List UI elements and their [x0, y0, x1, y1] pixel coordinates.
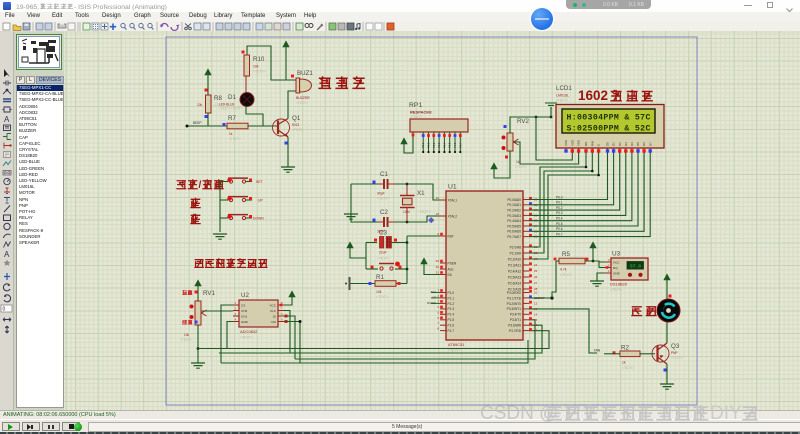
svg-text:<TEXT>: <TEXT> [213, 103, 225, 107]
battery cell [349, 277, 351, 290]
wire D1 to P0.1 [529, 153, 614, 205]
svg-text:<TEXT><TEXT>: <TEXT><TEXT> [219, 107, 243, 111]
svg-text:P0.2: P0.2 [556, 206, 563, 210]
svg-text:<TEXT>: <TEXT> [180, 338, 192, 342]
svg-text:D5: D5 [636, 142, 640, 146]
svg-text:RV2: RV2 [517, 118, 529, 125]
svg-text:P0.3/AD3: P0.3/AD3 [507, 214, 521, 218]
wire D4 to P0.4 [529, 153, 632, 221]
svg-text:P1.0: P1.0 [448, 291, 455, 295]
wire Q1 emitter to ground [287, 137, 289, 167]
svg-text:XTAL1: XTAL1 [448, 198, 458, 202]
svg-text:<TEXT>: <TEXT> [410, 115, 422, 119]
respack pin P0.2 [433, 132, 435, 152]
wire P3.1 stub [529, 297, 552, 299]
svg-text:UP: UP [258, 199, 263, 203]
svg-text:P0.7: P0.7 [556, 232, 563, 236]
svg-text:CH1: CH1 [241, 314, 247, 318]
power arrow RV2 [491, 163, 497, 169]
annotation jia [190, 198, 200, 208]
svg-text:SET: SET [256, 180, 263, 184]
bus wire C [295, 320, 535, 359]
svg-text:12M: 12M [403, 210, 410, 214]
svg-text:D6: D6 [642, 142, 646, 146]
svg-text:<TEXT>: <TEXT> [292, 128, 304, 132]
svg-text:P1.7: P1.7 [448, 329, 455, 333]
device list [16, 85, 64, 408]
svg-text:P1.2: P1.2 [448, 302, 455, 306]
watermark [480, 403, 800, 427]
svg-text:RESPACK8: RESPACK8 [410, 110, 432, 115]
svg-text:RS: RS [584, 142, 588, 146]
svg-text:VSS: VSS [564, 140, 568, 146]
power arrow motor [664, 274, 670, 280]
svg-text:P0.5: P0.5 [556, 222, 563, 226]
svg-text:RST: RST [448, 234, 454, 238]
device list header [16, 76, 64, 84]
wire Q1 collector to buzzer [288, 91, 296, 119]
svg-text:LM016L: LM016L [556, 94, 569, 98]
svg-text:<TEXT>: <TEXT> [448, 349, 461, 353]
svg-text:1k: 1k [229, 132, 233, 136]
annotation fengshan [631, 307, 642, 316]
svg-text:C3: C3 [379, 230, 387, 237]
capacitor C3 electrolytic [366, 242, 377, 244]
svg-text:P2.1/A9: P2.1/A9 [510, 251, 522, 255]
ground C1C2 [344, 214, 358, 219]
svg-text:P3.2/INT0: P3.2/INT0 [507, 302, 522, 306]
svg-text:U3: U3 [612, 251, 621, 258]
svg-text:GND: GND [241, 320, 249, 324]
wire RV2 top to vss [510, 117, 551, 133]
power arrow R8 [205, 69, 211, 75]
svg-text:P0.7: P0.7 [458, 142, 462, 148]
svg-text:<TEXT>: <TEXT> [610, 288, 623, 292]
reset button [366, 268, 378, 270]
svg-text:P0.2: P0.2 [432, 142, 436, 148]
svg-text:R8: R8 [214, 95, 222, 102]
respack RP1 [410, 119, 468, 132]
svg-text:P0.4: P0.4 [442, 142, 446, 148]
power arrow EA [421, 258, 427, 264]
svg-text:RV1: RV1 [203, 290, 215, 297]
wire R7 to Q1 base [248, 125, 278, 127]
led D1 [245, 76, 247, 93]
svg-text:D2: D2 [618, 142, 622, 146]
svg-text:DI: DI [273, 314, 276, 318]
wire FAN net from P3.3 [529, 309, 597, 353]
svg-text:17: 17 [534, 329, 538, 333]
sheet border [166, 37, 697, 405]
wire RV1 bottom [197, 325, 199, 363]
wire D6 to P0.6 [529, 153, 644, 232]
svg-text:DOWN: DOWN [427, 301, 436, 305]
svg-text:P1.5: P1.5 [448, 318, 455, 322]
svg-text:<TEXT>: <TEXT> [377, 257, 390, 261]
svg-text:P3.1/TXD: P3.1/TXD [507, 296, 522, 300]
svg-text:CSDN @: CSDN @ [480, 403, 558, 424]
wire RV1 wiper [202, 310, 234, 312]
svg-text:D7: D7 [648, 142, 652, 146]
svg-text:C2: C2 [380, 209, 388, 216]
svg-text:P0.3: P0.3 [556, 211, 563, 215]
svg-text:D3: D3 [624, 142, 628, 146]
svg-text:DQ: DQ [613, 266, 618, 270]
svg-text:D0: D0 [606, 142, 610, 146]
svg-text:R7: R7 [228, 115, 236, 122]
svg-text:P3.4/T0: P3.4/T0 [510, 313, 521, 317]
toolbar [0, 21, 800, 32]
respack pin P0.0 [422, 132, 424, 152]
svg-text:X1: X1 [417, 190, 425, 197]
svg-text:DO: DO [271, 320, 276, 324]
svg-text:<TEXT>: <TEXT> [622, 366, 635, 370]
svg-text:P0.7/AD7: P0.7/AD7 [507, 235, 521, 239]
svg-text:<TEXT>: <TEXT> [377, 197, 390, 201]
svg-text:<TEXT>: <TEXT> [671, 356, 683, 360]
svg-text:CLK: CLK [270, 309, 277, 313]
net speed pill [566, 0, 651, 9]
svg-text:P0.1: P0.1 [427, 142, 431, 148]
svg-text:10k: 10k [376, 290, 382, 294]
wire R5 left DQ net [556, 260, 559, 262]
svg-text:<TEXT>: <TEXT> [376, 295, 389, 299]
wire motor to Q3 [666, 322, 668, 343]
svg-text:A: A [4, 115, 10, 124]
svg-text:10k: 10k [184, 333, 190, 337]
wire D5 to P0.5 [529, 153, 638, 227]
menu bar [0, 12, 800, 21]
wire U2 DI [284, 316, 295, 359]
wire C1C2 ground rail [351, 183, 379, 185]
svg-text:<TEXT>: <TEXT> [556, 99, 568, 103]
wire D2 to P0.2 [529, 153, 620, 211]
ground Q1 [281, 167, 295, 172]
svg-text:U2: U2 [241, 292, 249, 299]
svg-text:9013: 9013 [292, 123, 299, 127]
wire E net [529, 153, 599, 260]
transistor Q3 PNP [652, 345, 669, 362]
svg-text:- ISIS Professional (Animating: - ISIS Professional (Animating) [74, 4, 167, 11]
svg-text:P0.6: P0.6 [453, 142, 457, 148]
svg-text:D1: D1 [228, 94, 236, 101]
status bar [0, 410, 800, 419]
svg-text:CS: CS [241, 303, 245, 307]
svg-text:P0.6: P0.6 [556, 227, 563, 231]
bottom taskbar edge [0, 432, 800, 434]
respack pin P0.4 [443, 132, 445, 152]
svg-text:P0.0: P0.0 [556, 195, 563, 199]
svg-text:12: 12 [534, 301, 538, 305]
svg-text:/: / [199, 180, 202, 191]
svg-text:P2.2/A10: P2.2/A10 [508, 257, 521, 261]
svg-text:30: 30 [436, 265, 440, 269]
resistor R10 [244, 55, 250, 76]
capacitor C2 [384, 217, 388, 227]
button bus wire [219, 182, 221, 233]
svg-text:16: 16 [534, 323, 538, 327]
respack vcc hook [401, 138, 407, 144]
svg-text:8: 8 [437, 327, 439, 331]
svg-text:P2.0/A8: P2.0/A8 [510, 245, 522, 249]
wire D1 to beep line [246, 107, 263, 127]
svg-text:24: 24 [534, 263, 538, 267]
svg-text:UP: UP [432, 295, 436, 299]
respack pin P0.1 [428, 132, 430, 152]
pot RV2 [507, 133, 513, 151]
svg-text:RP1: RP1 [409, 102, 422, 109]
chip U2 ADC0832 [239, 300, 278, 327]
power arrow U2 vcc [289, 291, 295, 297]
svg-text:BEEP: BEEP [193, 121, 202, 125]
svg-text:P2.4/A12: P2.4/A12 [508, 269, 521, 273]
svg-text:R5: R5 [562, 251, 570, 258]
resistor R5 [559, 258, 585, 264]
resistor R1 [351, 283, 376, 285]
svg-text:P2.6/A14: P2.6/A14 [508, 281, 521, 285]
svg-text:R10: R10 [253, 56, 265, 63]
svg-text:1k: 1k [516, 160, 520, 164]
power arrow RV1 [195, 280, 201, 286]
svg-text:<TEXT>: <TEXT> [296, 101, 308, 105]
svg-text:FAN: FAN [594, 349, 601, 353]
svg-text:7: 7 [437, 321, 439, 325]
wire R5 right [585, 261, 605, 262]
svg-text:VCC: VCC [613, 260, 620, 264]
resistor R2 [604, 353, 620, 355]
svg-text:P0.6/AD6: P0.6/AD6 [507, 230, 521, 234]
svg-text:VDD: VDD [570, 139, 574, 146]
svg-text:P3.3/INT1: P3.3/INT1 [507, 307, 522, 311]
svg-text:6: 6 [437, 316, 439, 320]
svg-text:BUZ1: BUZ1 [297, 70, 313, 77]
svg-text:Q1: Q1 [292, 115, 301, 122]
wire VDD net [536, 117, 572, 160]
svg-text:19: 19 [436, 196, 440, 200]
svg-text:18: 18 [436, 212, 440, 216]
svg-text:P3.0/RXD: P3.0/RXD [507, 291, 522, 295]
svg-text:P0.5/AD5: P0.5/AD5 [507, 224, 521, 228]
wire R10 top to vcc rail [247, 46, 296, 80]
svg-text:H:00304PPM & 57C: H:00304PPM & 57C [567, 113, 651, 122]
svg-text:Q3: Q3 [671, 343, 680, 350]
bus wire B [219, 325, 542, 353]
annotation fengmingqi [318, 76, 331, 88]
crystal X1 [406, 185, 408, 221]
svg-text:P3.7/RD: P3.7/RD [509, 329, 522, 333]
svg-text:R2: R2 [621, 345, 629, 352]
wire R2 to Q3 [640, 353, 655, 355]
svg-text:D1: D1 [612, 142, 616, 146]
wire xtal top [395, 184, 440, 200]
resistor R7 [227, 123, 248, 129]
wire RW net [529, 153, 592, 254]
svg-text:<TEXT>: <TEXT> [418, 210, 431, 214]
svg-text:<TEXT>: <TEXT> [240, 336, 253, 340]
pot RV1 [195, 301, 201, 325]
wire U2 CLK [219, 311, 290, 354]
svg-text:<TEXT>: <TEXT> [515, 165, 527, 169]
wire RS net [529, 153, 586, 248]
svg-text:P3.6/WR: P3.6/WR [508, 324, 521, 328]
wire VEE wiper [514, 142, 579, 164]
svg-text:S:02500PPM & 52C: S:02500PPM & 52C [567, 124, 651, 133]
resistor R8 [206, 95, 212, 113]
left panel area [14, 32, 64, 410]
lcd module LM016L [556, 105, 664, 149]
svg-text:C1: C1 [380, 171, 388, 178]
wire U2 GND [227, 322, 233, 349]
wire D0 to P0.0 [529, 153, 608, 200]
svg-text:57.0: 57.0 [630, 263, 641, 269]
svg-text:1: 1 [437, 289, 439, 293]
respack pin P0.6 [454, 132, 456, 152]
svg-text:P0.4/AD4: P0.4/AD4 [507, 219, 521, 223]
svg-text:1k: 1k [622, 361, 626, 365]
ground RV1 [191, 363, 205, 368]
svg-text:LCD1: LCD1 [556, 85, 572, 92]
wire U2 CS [221, 305, 233, 363]
annotation shezhi/queren [176, 181, 186, 189]
svg-text:10k: 10k [197, 103, 203, 107]
svg-text:DS18B20: DS18B20 [610, 282, 628, 287]
chip U3 DS18B20 [611, 258, 648, 280]
svg-text:A: A [4, 250, 10, 259]
power arrow C3 [347, 242, 353, 248]
svg-text:10k: 10k [253, 65, 259, 69]
playback bar [0, 419, 800, 434]
svg-text:E: E [597, 144, 601, 146]
mcu U1 AT89C51 [446, 191, 523, 340]
transistor Q1 [273, 119, 290, 136]
blue assistant circle [531, 8, 553, 30]
power vcc arrow buzzer rail [283, 41, 289, 47]
ground U3 [590, 281, 604, 286]
annotation yanwuchuanganqishuchu [194, 260, 204, 268]
button DOWN [220, 217, 228, 219]
svg-text:31: 31 [436, 271, 440, 275]
svg-text:D4: D4 [630, 142, 634, 146]
svg-text:P0.3: P0.3 [437, 142, 441, 148]
svg-text:ALE: ALE [448, 267, 454, 271]
wire D3 to P0.3 [529, 153, 626, 216]
bus wire A [198, 331, 549, 349]
svg-text:AT89C51: AT89C51 [448, 342, 465, 347]
svg-text:<TEXT>: <TEXT> [253, 70, 266, 74]
buzzer BUZ1 [296, 78, 300, 93]
svg-text:14: 14 [534, 312, 538, 316]
annotation jian [190, 214, 200, 224]
svg-text:GND: GND [613, 271, 621, 275]
left sidebar [0, 32, 14, 410]
svg-text:3: 3 [437, 299, 439, 303]
svg-text:P1.6: P1.6 [448, 324, 455, 328]
svg-text:U1: U1 [448, 184, 457, 191]
ground Q3 [660, 384, 674, 389]
button UP [220, 199, 228, 201]
svg-text:RW: RW [590, 141, 594, 146]
bus wire D [221, 340, 528, 363]
svg-text:P1.1: P1.1 [448, 296, 455, 300]
svg-text:0: 0 [3, 307, 6, 313]
motor fan [657, 299, 680, 322]
preview window [16, 34, 62, 70]
respack pin P0.5 [449, 132, 451, 152]
svg-text:30pF: 30pF [377, 192, 385, 196]
svg-text:<TEXT>: <TEXT> [229, 137, 241, 141]
svg-text:ADC0832: ADC0832 [240, 329, 258, 334]
svg-text:P0.5: P0.5 [448, 142, 452, 148]
title bar [0, 0, 800, 12]
svg-text:P1.3: P1.3 [448, 307, 455, 311]
svg-text:P2.5/A13: P2.5/A13 [508, 275, 521, 279]
svg-text:P0.1/AD1: P0.1/AD1 [507, 203, 521, 207]
svg-text:P0.0/AD0: P0.0/AD0 [507, 198, 521, 202]
svg-text:PNP: PNP [671, 351, 678, 355]
wire rst column [406, 236, 408, 284]
svg-text:PSEN: PSEN [448, 261, 457, 265]
svg-text:SET: SET [431, 290, 437, 294]
wire U3 gnd [597, 273, 605, 281]
svg-text:<TEXT>: <TEXT> [560, 273, 573, 277]
svg-text:P1.4: P1.4 [448, 313, 455, 317]
wire C3 left column [365, 243, 367, 270]
svg-text:10: 10 [534, 291, 538, 295]
svg-text:P2.3/A11: P2.3/A11 [508, 263, 521, 267]
svg-text:DOWN: DOWN [253, 217, 264, 221]
svg-text:25: 25 [534, 269, 538, 273]
wire BEEP net [187, 125, 227, 127]
svg-text:CH0: CH0 [241, 309, 247, 313]
svg-text:1602: 1602 [578, 88, 608, 103]
svg-text:XTAL2: XTAL2 [448, 214, 458, 218]
svg-text:P0.0: P0.0 [421, 142, 425, 148]
svg-text:9: 9 [437, 232, 439, 236]
capacitor C1 [384, 179, 388, 189]
button SET [220, 181, 228, 183]
svg-text:R1: R1 [376, 274, 384, 281]
svg-text:BUZZER: BUZZER [296, 96, 310, 100]
svg-text:26: 26 [534, 275, 538, 279]
svg-text:22uF: 22uF [379, 251, 387, 255]
ground buttons [213, 234, 227, 239]
svg-text:27: 27 [534, 281, 538, 285]
svg-text:4: 4 [437, 305, 439, 309]
wire Q3 emitter gnd [666, 364, 668, 384]
svg-text:P0.1: P0.1 [556, 201, 563, 205]
svg-text:P3.5/T1: P3.5/T1 [510, 318, 521, 322]
respack pin P0.7 [459, 132, 461, 152]
respack pin P0.3 [438, 132, 440, 152]
svg-text:VCC: VCC [269, 303, 276, 307]
svg-text:P0.2/AD2: P0.2/AD2 [507, 209, 521, 213]
svg-text:5: 5 [437, 310, 439, 314]
svg-text:DIY: DIY [710, 403, 742, 424]
svg-text:P0.4: P0.4 [556, 217, 563, 221]
svg-text:19-965,: 19-965, [16, 4, 39, 11]
wire xtal bottom [395, 216, 440, 222]
wire U2 DO [284, 322, 300, 364]
wire D7 to P0.7 [529, 153, 650, 237]
lcd ground vss [545, 103, 557, 108]
svg-text:2: 2 [437, 294, 439, 298]
svg-text:15: 15 [534, 318, 538, 322]
svg-text:29: 29 [436, 259, 440, 263]
power arrow DS pullup [590, 242, 596, 248]
wire U3 DQ [599, 267, 605, 269]
svg-text:VEE: VEE [577, 140, 581, 146]
svg-text:4.7k: 4.7k [560, 268, 567, 272]
